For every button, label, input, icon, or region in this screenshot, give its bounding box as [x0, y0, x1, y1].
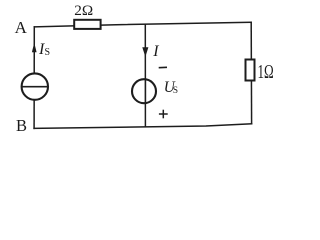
label 2Ω — [74, 2, 93, 19]
wire middle branch (top wire down to bottom wire) — [144, 25, 146, 127]
current source Is (circle with horizontal bar) — [22, 73, 48, 99]
svg-text:I: I — [152, 43, 159, 60]
node A — [15, 18, 28, 37]
polarity plus (below Us) — [159, 110, 168, 119]
svg-text:1Ω: 1Ω — [258, 62, 274, 83]
wire bottom (node B to bottom-right corner) — [34, 124, 252, 129]
wire right branch (top-right corner down to bottom-right corner) — [250, 22, 252, 123]
svg-text:B: B — [16, 116, 27, 135]
svg-text:2Ω: 2Ω — [74, 2, 93, 19]
resistor 1Ω (vertical box on right branch) — [246, 60, 255, 81]
resistor 2Ω (horizontal box on top wire) — [74, 20, 100, 29]
arrow Is (up, on left wire) — [32, 43, 37, 53]
wire left branch (A down through source to B) — [33, 27, 35, 128]
label 1Ω — [258, 62, 274, 83]
label Us — [164, 79, 178, 96]
svg-text:S: S — [45, 47, 51, 58]
arrow I (down, on middle branch) — [142, 47, 148, 57]
svg-text:A: A — [15, 18, 28, 37]
label I — [152, 43, 159, 60]
label Is — [38, 41, 50, 58]
node B — [16, 116, 27, 135]
svg-text:S: S — [173, 86, 178, 96]
voltage source Us (circle with vertical bar through it) — [132, 79, 156, 103]
wire top (node A to top-right corner) — [34, 22, 251, 27]
polarity minus (above Us) — [159, 66, 167, 68]
